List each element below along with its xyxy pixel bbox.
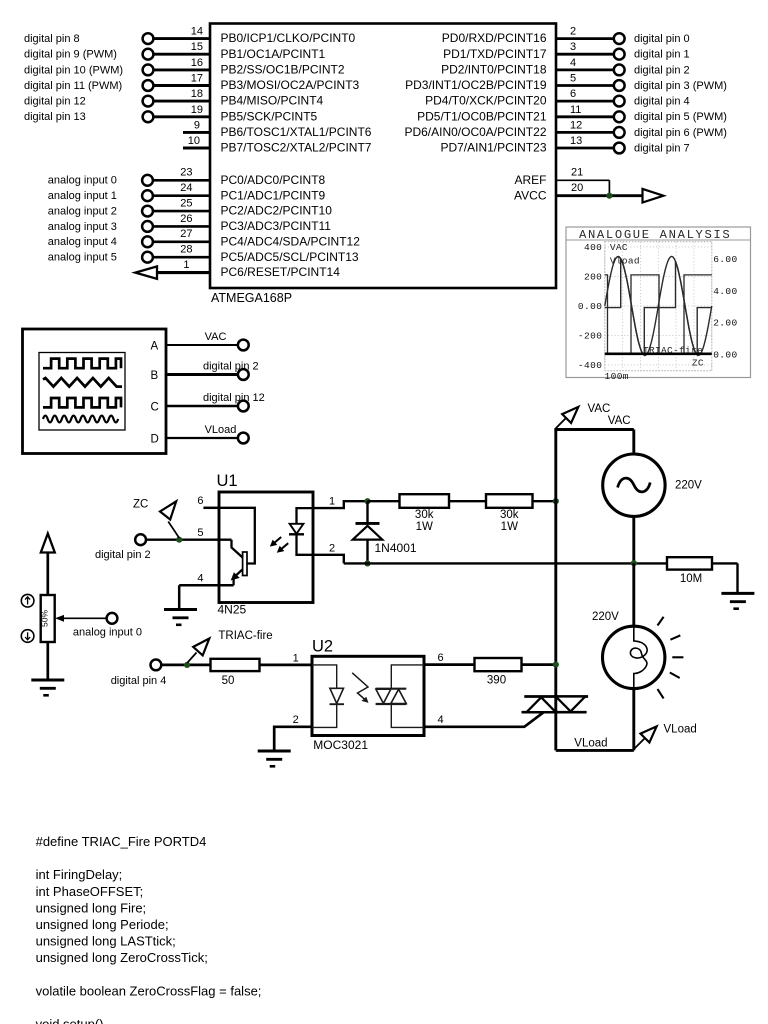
pin 17 row: digital pin 11 (PWM) / PB3/MOSI/OC2A/PCINT3	[24, 72, 360, 92]
U1 pin 5 wire row	[146, 527, 232, 540]
junction TRIAC-fire node	[184, 662, 190, 668]
scope trace VAC sine	[605, 257, 712, 356]
waveform trace zigzag B	[43, 378, 122, 387]
svg-text:1W: 1W	[501, 521, 518, 533]
svg-text:10M: 10M	[680, 573, 702, 585]
svg-text:void setup(): void setup()	[36, 1017, 104, 1024]
lamp 220V body	[603, 626, 665, 688]
generator pin C: digital pin 12	[151, 392, 265, 414]
pin 28 row: analog input 5 / PC5/ADC5/SCL/PCINT13	[48, 244, 359, 264]
junction diode top	[364, 498, 370, 504]
svg-text:PC4/ADC4/SDA/PCINT12: PC4/ADC4/SDA/PCINT12	[221, 234, 361, 248]
svg-text:D: D	[151, 434, 159, 446]
resistor 390	[475, 658, 522, 671]
svg-text:400: 400	[584, 242, 602, 253]
svg-text:U1: U1	[217, 472, 238, 490]
svg-text:26: 26	[180, 213, 192, 225]
svg-text:PB1/OC1A/PCINT1: PB1/OC1A/PCINT1	[221, 47, 326, 61]
pin 14 row: digital pin 8 / PB0/ICP1/CLKO/PCINT0	[24, 26, 356, 46]
svg-text:12: 12	[570, 119, 582, 131]
pin 13 row: PD7/AIN1/PCINT23 / digital pin 7	[440, 135, 689, 155]
IC ATMEGA168P body	[210, 24, 556, 289]
svg-text:220V: 220V	[675, 479, 702, 491]
VLoad net arrow	[641, 726, 657, 742]
diode 1N4001	[353, 501, 383, 563]
wire 30k to VAC rail	[533, 500, 557, 502]
svg-text:390: 390	[487, 674, 506, 686]
pin 11 row: PD5/T1/OC0B/PCINT21 / digital pin 5 (PWM)	[417, 104, 727, 124]
svg-text:25: 25	[180, 197, 192, 209]
pin 15 row: digital pin 9 (PWM) / PB1/OC1A/PCINT1	[24, 41, 326, 61]
svg-text:2: 2	[293, 714, 299, 726]
svg-text:unsigned long ZeroCrossTick;: unsigned long ZeroCrossTick;	[36, 950, 208, 965]
svg-text:digital pin 11 (PWM): digital pin 11 (PWM)	[24, 80, 122, 92]
svg-text:digital pin 1: digital pin 1	[634, 49, 690, 61]
svg-text:PC6/RESET/PCINT14: PC6/RESET/PCINT14	[221, 265, 341, 279]
svg-text:AREF: AREF	[514, 173, 546, 187]
svg-text:50%: 50%	[40, 610, 50, 627]
svg-text:unsigned long Fire;: unsigned long Fire;	[36, 900, 147, 915]
U2 pin 2 wire to ground	[274, 727, 312, 751]
svg-text:4N25: 4N25	[218, 603, 247, 617]
generator pin D: VLoad	[151, 424, 249, 446]
svg-text:unsigned long Periode;: unsigned long Periode;	[36, 917, 169, 932]
svg-text:B: B	[151, 370, 159, 382]
svg-text:20: 20	[571, 182, 583, 194]
svg-text:VAC: VAC	[205, 331, 227, 343]
svg-text:ZC: ZC	[133, 499, 148, 511]
svg-text:digital pin 12: digital pin 12	[203, 392, 265, 404]
svg-text:digital pin 13: digital pin 13	[24, 111, 86, 123]
pin 5 row: PD3/INT1/OC2B/PCINT19 / digital pin 3 (PWM)	[405, 72, 727, 92]
pin 20 AVCC	[514, 180, 643, 202]
terminal analog input 0	[107, 613, 118, 624]
svg-text:PD1/TXD/PCINT17: PD1/TXD/PCINT17	[443, 47, 547, 61]
VAC net arrow lead	[556, 418, 567, 429]
pot bottom lead	[46, 642, 49, 680]
AC source 220V	[603, 454, 665, 516]
svg-text:digital pin 9 (PWM): digital pin 9 (PWM)	[24, 49, 117, 61]
ground at 10M	[721, 593, 754, 608]
generator pin B: digital pin 2	[151, 361, 259, 383]
svg-text:PC0/ADC0/PCINT8: PC0/ADC0/PCINT8	[221, 173, 326, 187]
U1 base lead from pin 5	[232, 540, 243, 558]
svg-text:14: 14	[191, 26, 203, 38]
VLoad bottom wire	[556, 749, 634, 752]
svg-text:2.00: 2.00	[713, 318, 737, 329]
svg-text:VLoad: VLoad	[664, 723, 697, 735]
pin 12 row: PD6/AIN0/OC0A/PCINT22 / digital pin 6 (PWM)	[404, 119, 726, 139]
svg-text:volatile boolean ZeroCrossFlag: volatile boolean ZeroCrossFlag = false;	[36, 983, 262, 998]
svg-text:0.00: 0.00	[713, 349, 737, 360]
svg-text:200: 200	[584, 271, 602, 282]
svg-text:19: 19	[191, 104, 203, 116]
svg-text:PB0/ICP1/CLKO/PCINT0: PB0/ICP1/CLKO/PCINT0	[221, 31, 356, 45]
U1 phototransistor base bar	[243, 552, 247, 576]
scope grid	[605, 242, 712, 371]
triac right triangle	[556, 697, 585, 712]
svg-text:PB5/SCK/PCINT5: PB5/SCK/PCINT5	[221, 109, 318, 123]
pin 9 stub: PB6/TOSC1/XTAL1/PCINT6	[183, 119, 372, 139]
ZC arrow	[160, 501, 176, 519]
svg-text:PD0/RXD/PCINT16: PD0/RXD/PCINT16	[442, 31, 547, 45]
svg-text:digital pin 6 (PWM): digital pin 6 (PWM)	[634, 127, 727, 139]
svg-text:1: 1	[293, 653, 299, 665]
svg-text:digital pin 0: digital pin 0	[634, 33, 690, 45]
pin 27 row: analog input 4 / PC4/ADC4/SDA/PCINT12	[48, 228, 360, 248]
svg-text:1: 1	[183, 259, 189, 271]
svg-text:5: 5	[570, 72, 576, 84]
svg-text:TRIAC-fire: TRIAC-fire	[218, 630, 272, 642]
generator pin A: VAC	[151, 331, 249, 353]
potentiometer down indicator	[21, 630, 34, 643]
junction VAC rail / 30k	[553, 498, 559, 504]
scope trace TRIAC-fire baseline	[605, 352, 712, 355]
svg-text:analog input 3: analog input 3	[48, 221, 117, 233]
svg-text:PB4/MISO/PCINT4: PB4/MISO/PCINT4	[221, 94, 324, 108]
VLoad net arrow lead	[634, 739, 645, 750]
lamp top lead	[632, 563, 635, 627]
resistor 10M	[667, 557, 712, 569]
svg-text:digital pin 2: digital pin 2	[95, 549, 151, 561]
svg-text:VAC: VAC	[608, 415, 631, 427]
source top lead	[632, 430, 635, 455]
U1 LED triangle	[290, 524, 304, 534]
VAC rail top horizontal	[554, 428, 633, 431]
scope right axis labels	[713, 254, 737, 360]
pin 16 row: digital pin 10 (PWM) / PB2/SS/OC1B/PCINT2	[24, 57, 345, 77]
svg-text:PD7/AIN1/PCINT23: PD7/AIN1/PCINT23	[440, 141, 546, 155]
potentiometer up indicator	[21, 594, 34, 607]
wire dp4 to 50	[161, 664, 210, 667]
scope left axis labels	[578, 242, 602, 371]
resistor 30k 1W (second)	[486, 494, 533, 508]
svg-text:6: 6	[197, 495, 203, 507]
U1 pin 6 stub	[197, 495, 219, 508]
resistor 30k 1W (first)	[400, 494, 450, 508]
svg-text:U2: U2	[312, 638, 333, 656]
U1 LED cathode bar	[289, 533, 304, 535]
pin 18 row: digital pin 12 / PB4/MISO/PCINT4	[24, 88, 324, 108]
U1 pin 2 wire	[313, 542, 344, 563]
scope trace ZC	[605, 275, 712, 354]
potentiometer body	[41, 595, 55, 642]
lamp rays	[658, 617, 684, 699]
svg-text:13: 13	[570, 135, 582, 147]
svg-text:0.00: 0.00	[578, 301, 602, 312]
pin 21 AREF	[514, 167, 609, 187]
svg-text:digital pin 10 (PWM): digital pin 10 (PWM)	[24, 64, 123, 76]
ground below potentiometer	[31, 680, 64, 695]
svg-text:VLoad: VLoad	[205, 424, 237, 436]
svg-text:analog input 5: analog input 5	[48, 252, 117, 264]
svg-text:-400: -400	[578, 360, 602, 371]
U1 phototransistor emitter with arrow	[231, 569, 243, 585]
triac top bar	[524, 695, 588, 698]
svg-text:VAC: VAC	[610, 242, 628, 253]
source bottom lead	[632, 516, 635, 563]
svg-text:23: 23	[180, 167, 192, 179]
svg-text:3: 3	[570, 41, 576, 53]
svg-text:analog input 0: analog input 0	[48, 175, 117, 187]
triac left triangle	[527, 697, 556, 712]
svg-text:analog input 0: analog input 0	[73, 626, 142, 638]
svg-text:digital pin 4: digital pin 4	[111, 675, 167, 687]
svg-text:9: 9	[194, 119, 200, 131]
wire U2 pin6 to 390	[424, 663, 475, 666]
svg-text:PD3/INT1/OC2B/PCINT19: PD3/INT1/OC2B/PCINT19	[405, 78, 547, 92]
svg-text:ATMEGA168P: ATMEGA168P	[211, 291, 292, 305]
power arrow AVCC	[643, 189, 664, 203]
svg-text:digital pin 8: digital pin 8	[24, 33, 80, 45]
VAC rail vertical	[554, 430, 557, 751]
svg-text:A: A	[151, 341, 159, 353]
svg-text:digital pin 2: digital pin 2	[203, 361, 259, 373]
triac bottom bar	[522, 711, 587, 714]
wire diode-top to R 30k	[368, 500, 400, 502]
junction diode bottom	[364, 560, 370, 566]
U2 light zigzag arrow	[352, 673, 368, 703]
svg-text:PC3/ADC3/PCINT11: PC3/ADC3/PCINT11	[221, 219, 332, 233]
svg-text:unsigned long LASTtick;: unsigned long LASTtick;	[36, 934, 176, 949]
pin 1 row: reset arrow / PC6/RESET/PCINT14	[135, 259, 340, 279]
svg-text:15: 15	[191, 41, 203, 53]
svg-text:VAC: VAC	[588, 403, 611, 415]
source code text block	[36, 834, 262, 1024]
VAC net arrow	[562, 407, 578, 423]
svg-text:220V: 220V	[592, 611, 619, 623]
svg-text:PB6/TOSC1/XTAL1/PCINT6: PB6/TOSC1/XTAL1/PCINT6	[221, 125, 372, 139]
svg-text:1W: 1W	[416, 521, 433, 533]
ground below U1	[164, 610, 197, 625]
terminal digital pin 2	[135, 534, 146, 545]
pin 4 row: PD2/INT0/PCINT18 / digital pin 2	[441, 57, 690, 77]
svg-text:6: 6	[570, 88, 576, 100]
svg-text:digital pin 4: digital pin 4	[634, 96, 690, 108]
svg-text:5: 5	[197, 527, 203, 539]
svg-text:TRIAC-fire: TRIAC-fire	[643, 345, 703, 356]
svg-text:Vload: Vload	[610, 255, 640, 266]
svg-text:6: 6	[438, 652, 444, 664]
svg-text:24: 24	[180, 182, 192, 194]
svg-text:10: 10	[188, 135, 200, 147]
wire 50 to U2 pin 1	[260, 664, 313, 667]
svg-text:11: 11	[570, 104, 581, 116]
pin 6 row: PD4/T0/XCK/PCINT20 / digital pin 4	[425, 88, 690, 108]
opto-triac U2 body	[312, 656, 424, 735]
svg-text:4: 4	[570, 57, 576, 69]
svg-text:21: 21	[571, 167, 583, 179]
svg-text:#define TRIAC_Fire PORTD4: #define TRIAC_Fire PORTD4	[36, 834, 207, 849]
pin 24 row: analog input 1 / PC1/ADC1/PCINT9	[48, 182, 326, 202]
svg-text:digital pin 2: digital pin 2	[634, 64, 690, 76]
svg-text:AVCC: AVCC	[514, 188, 547, 202]
svg-text:2: 2	[329, 542, 335, 554]
svg-text:digital pin 7: digital pin 7	[634, 142, 690, 154]
svg-text:digital pin 3 (PWM): digital pin 3 (PWM)	[634, 80, 727, 92]
svg-text:4: 4	[438, 714, 444, 726]
waveform source block body	[23, 329, 167, 454]
svg-text:27: 27	[180, 228, 192, 240]
waveform trace sine D	[43, 416, 118, 423]
U1 pin 1 wire	[313, 495, 368, 508]
svg-text:30k: 30k	[415, 509, 434, 521]
wire between 30k resistors	[449, 500, 486, 502]
svg-text:2: 2	[570, 26, 576, 38]
U1 phototransistor collector wire	[219, 508, 255, 564]
waveform trace square C	[43, 398, 121, 407]
svg-text:4: 4	[197, 573, 203, 585]
lamp filament	[630, 627, 647, 689]
svg-text:C: C	[151, 402, 159, 414]
svg-text:28: 28	[180, 244, 192, 256]
waveform screen	[39, 353, 125, 431]
pin 2 row: PD0/RXD/PCINT16 / digital pin 0	[442, 26, 690, 46]
svg-text:PC5/ADC5/SCL/PCINT13: PC5/ADC5/SCL/PCINT13	[221, 250, 359, 264]
10M ground riser	[736, 563, 738, 593]
svg-text:17: 17	[191, 72, 203, 84]
svg-text:PD2/INT0/PCINT18: PD2/INT0/PCINT18	[441, 62, 547, 76]
scope panel ANALOGUE ANALYSIS	[566, 227, 751, 378]
U1 light arrows	[270, 537, 288, 553]
ZC tap wire	[168, 522, 179, 539]
svg-text:ZC: ZC	[692, 357, 704, 368]
pin 10 stub: PB7/TOSC2/XTAL2/PCINT7	[183, 135, 372, 155]
wire 10M to ground	[712, 562, 738, 564]
junction AREF/AVCC	[606, 193, 612, 199]
pin 23 row: analog input 0 / PC0/ADC0/PCINT8	[48, 167, 326, 187]
resistor 50	[211, 659, 260, 671]
svg-text:PD4/T0/XCK/PCINT20: PD4/T0/XCK/PCINT20	[425, 94, 547, 108]
svg-text:int PhaseOFFSET;: int PhaseOFFSET;	[36, 884, 144, 899]
svg-text:analog input 2: analog input 2	[48, 205, 117, 217]
svg-text:4.00: 4.00	[713, 286, 737, 297]
triac gate lead	[424, 712, 544, 727]
svg-text:50: 50	[222, 675, 235, 687]
lamp bottom lead	[632, 689, 635, 751]
svg-text:PD5/T1/OC0B/PCINT21: PD5/T1/OC0B/PCINT21	[417, 109, 547, 123]
wire 390 to rail	[522, 663, 556, 666]
pin 25 row: analog input 2 / PC2/ADC2/PCINT10	[48, 197, 332, 217]
svg-text:PC2/ADC2/PCINT10: PC2/ADC2/PCINT10	[221, 204, 333, 218]
svg-text:PD6/AIN0/OC0A/PCINT22: PD6/AIN0/OC0A/PCINT22	[404, 125, 546, 139]
svg-text:18: 18	[191, 88, 203, 100]
TRIAC-fire arrow	[193, 639, 209, 656]
pin 3 row: PD1/TXD/PCINT17 / digital pin 1	[443, 41, 690, 61]
junction source bottom	[631, 560, 637, 566]
AC sine symbol	[618, 478, 651, 492]
ground below U2	[258, 751, 291, 766]
svg-text:-200: -200	[578, 330, 602, 341]
terminal digital pin 4	[151, 660, 162, 671]
U1 LED anode wire	[297, 508, 314, 523]
net VAC-return bus	[344, 562, 667, 564]
pin 19 row: digital pin 13 / PB5/SCK/PCINT5	[24, 104, 318, 124]
svg-text:analog input 4: analog input 4	[48, 236, 117, 248]
U2 internal triac	[391, 665, 424, 728]
svg-text:PB2/SS/OC1B/PCINT2: PB2/SS/OC1B/PCINT2	[221, 62, 345, 76]
scope plot frame	[605, 242, 712, 371]
U2 internal LED	[312, 665, 337, 728]
scope trace Vload	[605, 259, 712, 356]
svg-text:6.00: 6.00	[713, 254, 737, 265]
svg-text:PC1/ADC1/PCINT9: PC1/ADC1/PCINT9	[221, 188, 326, 202]
junction rail / 390	[553, 662, 559, 668]
svg-text:MOC3021: MOC3021	[313, 738, 368, 752]
svg-text:PB7/TOSC2/XTAL2/PCINT7: PB7/TOSC2/XTAL2/PCINT7	[221, 141, 372, 155]
potentiometer top arrow	[41, 534, 55, 596]
U1 LED cathode wire	[297, 534, 314, 555]
U1 pin 4 wire and emitter return	[179, 573, 233, 586]
svg-text:100m: 100m	[605, 371, 629, 382]
pin 26 row: analog input 3 / PC3/ADC3/PCINT11	[48, 213, 332, 233]
svg-text:digital pin 12: digital pin 12	[24, 96, 86, 108]
svg-text:16: 16	[191, 57, 203, 69]
svg-text:PB3/MOSI/OC2A/PCINT3: PB3/MOSI/OC2A/PCINT3	[221, 78, 360, 92]
waveform trace square A	[43, 359, 121, 369]
U1 ground riser	[178, 585, 181, 609]
svg-text:1N4001: 1N4001	[375, 541, 417, 555]
svg-text:digital pin 5 (PWM): digital pin 5 (PWM)	[634, 111, 727, 123]
svg-text:analog input 1: analog input 1	[48, 190, 117, 202]
svg-text:30k: 30k	[500, 509, 519, 521]
svg-text:int FiringDelay;: int FiringDelay;	[36, 867, 123, 882]
TRIAC-fire tap wire	[187, 653, 196, 664]
potentiometer wiper	[55, 615, 107, 622]
svg-text:VLoad: VLoad	[574, 738, 607, 750]
svg-text:1: 1	[329, 495, 335, 507]
opto-coupler U1 body	[219, 492, 313, 603]
junction ZC node	[176, 537, 182, 543]
